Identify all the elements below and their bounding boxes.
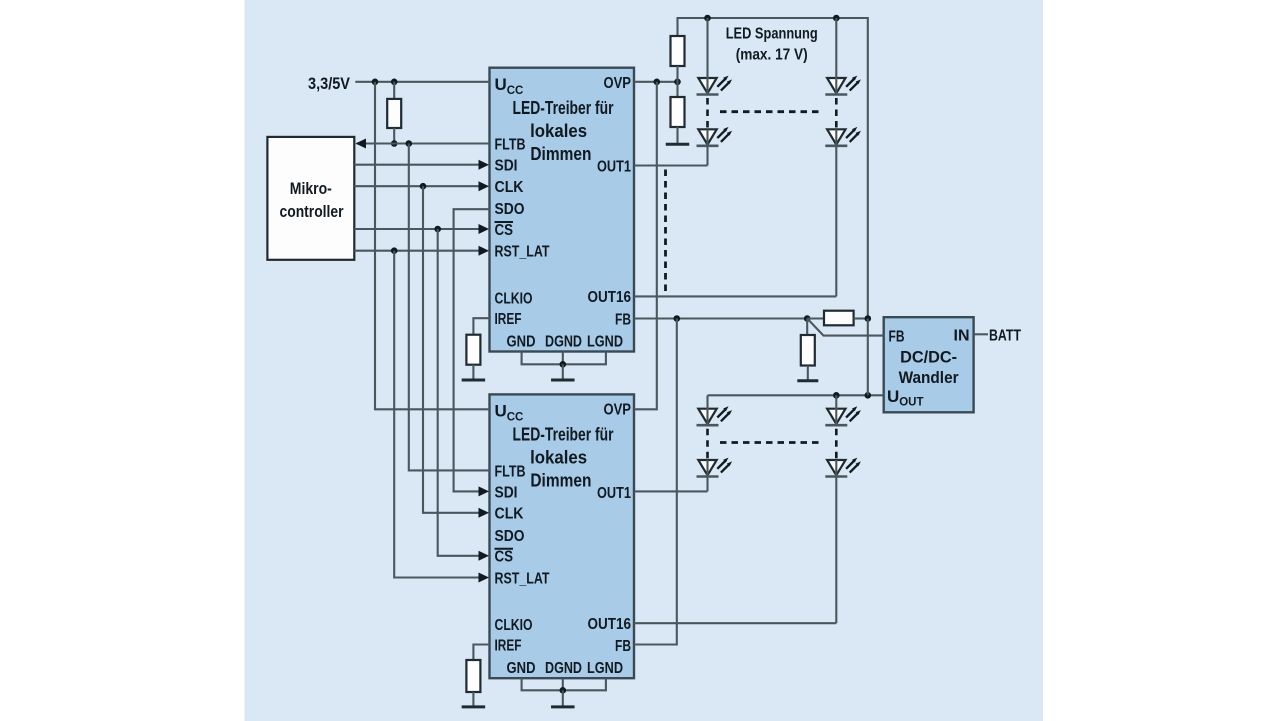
dashed series link bank2 [720, 441, 823, 444]
svg-text:SDO: SDO [495, 201, 525, 218]
wire IREF1 [473, 318, 489, 335]
wire FLTB1 [357, 142, 490, 144]
dashed series link bank1 [720, 110, 823, 113]
wire IREF2 [473, 645, 489, 661]
arrow CLK1 [479, 181, 490, 191]
arrow SDI2 [479, 486, 490, 496]
wire SDO1 to SDI2 [454, 209, 490, 491]
wire UOUT [708, 394, 884, 396]
node R1-FLTB [391, 140, 398, 147]
node LED top b [833, 15, 840, 22]
svg-text:DGND: DGND [545, 660, 582, 677]
svg-text:Dimmen: Dimmen [530, 143, 591, 164]
svg-text:3,3/5V: 3,3/5V [308, 74, 351, 93]
svg-text:CS: CS [495, 549, 514, 566]
svg-text:FB: FB [615, 638, 631, 655]
node LED top a [704, 15, 711, 22]
node OVP1-a [654, 79, 661, 86]
arrow RST_LAT2 [479, 573, 490, 583]
wire LED supply top [678, 18, 868, 319]
wire Ucc1 supply [355, 81, 489, 83]
dashed outputs U1 [664, 170, 667, 292]
node OVP1-b [674, 79, 681, 86]
arrow SDI1 [479, 160, 490, 170]
IC U3 DC/DC-Wandler [884, 317, 974, 412]
svg-text:GND: GND [507, 334, 536, 351]
wire CLK1 [354, 185, 478, 187]
svg-text:OUT: OUT [899, 397, 923, 409]
svg-text:Dimmen: Dimmen [530, 470, 591, 491]
svg-text:LED-Treiber für: LED-Treiber für [513, 424, 614, 445]
svg-text:DGND: DGND [545, 334, 582, 351]
wire R3-R4 [676, 66, 678, 97]
svg-text:GND: GND [507, 660, 536, 677]
LED string 4 to OUT16 U2 [634, 395, 861, 623]
node FLTB bus [406, 140, 413, 147]
IC U2 LED-Treiber block 2 [490, 394, 635, 678]
ground R6 [797, 366, 818, 381]
wire supply rail to UOUT [867, 319, 869, 396]
ground R7 [462, 692, 486, 707]
node FB junction [804, 315, 811, 322]
wire FB1 [634, 317, 807, 319]
resistor R1 [387, 99, 401, 128]
LED string 1 to OUT1 U1 [634, 18, 732, 166]
svg-text:lokales: lokales [530, 447, 587, 468]
wire DGND1 stub [562, 352, 564, 365]
svg-text:Wandler: Wandler [899, 368, 959, 387]
svg-text:controller: controller [280, 202, 344, 221]
wire RST_LAT1 [354, 250, 478, 252]
svg-text:LGND: LGND [587, 334, 623, 351]
svg-text:OUT16: OUT16 [588, 289, 632, 306]
svg-text:LGND: LGND [587, 660, 623, 677]
ground R2 [462, 365, 486, 380]
resistor R2 [466, 335, 480, 365]
node FB bus [674, 315, 681, 322]
svg-text:OVP: OVP [604, 75, 632, 92]
background panel [245, 0, 1044, 721]
svg-text:RST_LAT: RST_LAT [495, 244, 550, 261]
arrow FLTB into microcontroller [356, 139, 367, 149]
resistor R6 stub [806, 319, 808, 336]
wire bus FLTB to U2 [409, 144, 490, 471]
microcontroller box [267, 137, 354, 260]
resistor R3 [671, 36, 685, 66]
svg-text:OUT1: OUT1 [597, 158, 631, 175]
svg-text:OUT1: OUT1 [597, 485, 631, 502]
svg-text:CLKIO: CLKIO [495, 617, 533, 634]
svg-text:CLKIO: CLKIO [495, 291, 533, 308]
wire OVP1 [634, 81, 678, 83]
wire bus FB1-FB2 [634, 319, 677, 645]
ground U1 [551, 364, 575, 380]
svg-text:IREF: IREF [495, 638, 522, 655]
wire R5 to rail [854, 317, 868, 319]
svg-text:IREF: IREF [495, 311, 522, 328]
svg-text:CLK: CLK [495, 506, 524, 523]
svg-text:CC: CC [507, 85, 524, 97]
svg-text:U: U [887, 387, 899, 406]
LED string 2 to OUT16 U1 [634, 18, 861, 296]
node CS bus [434, 226, 441, 233]
resistor R7 [466, 660, 480, 692]
svg-text:CS: CS [495, 222, 514, 239]
wire DGND2 stub [562, 678, 564, 690]
svg-text:U: U [495, 402, 507, 421]
wire GND2 rail [522, 678, 606, 690]
ground R4 [666, 127, 690, 144]
ground U2 [551, 690, 575, 707]
svg-text:OVP: OVP [604, 402, 632, 419]
svg-text:lokales: lokales [530, 120, 587, 141]
svg-text:DC/DC-: DC/DC- [900, 348, 957, 367]
svg-text:SDI: SDI [495, 484, 518, 501]
LED string 3 to OUT1 U2 [634, 395, 732, 491]
wire GND1 rail [522, 352, 606, 365]
wire CS1 [354, 228, 478, 230]
svg-text:LED-Treiber für: LED-Treiber für [513, 97, 614, 118]
node GND1 [560, 361, 567, 368]
node FB rail [865, 315, 872, 322]
svg-text:RST_LAT: RST_LAT [495, 570, 550, 587]
IC U1 LED-Treiber block 1 [490, 68, 635, 352]
svg-text:FB: FB [615, 311, 631, 328]
svg-text:BATT: BATT [989, 327, 1021, 344]
svg-text:OUT16: OUT16 [588, 616, 632, 633]
arrow CLK2 [479, 508, 490, 518]
wire bus OVP1-OVP2 [634, 82, 657, 410]
arrow RST_LAT1 [479, 246, 490, 256]
resistor R1 stub top [393, 82, 395, 99]
svg-text:LED Spannung: LED Spannung [726, 25, 818, 42]
resistor R5 [824, 311, 854, 326]
node CLK bus [420, 183, 427, 190]
wire bus Ucc to U2 [375, 82, 490, 410]
node UOUT-a [833, 392, 840, 399]
svg-text:FLTB: FLTB [495, 463, 526, 480]
svg-text:FLTB: FLTB [495, 137, 526, 154]
node supply-b [391, 79, 398, 86]
wire bus RST_LAT to U2 [394, 251, 478, 578]
wire FB to DC/DC [807, 319, 884, 336]
wire bus CLK to U2 [423, 186, 479, 513]
svg-text:CC: CC [507, 412, 524, 424]
node supply-a [372, 79, 379, 86]
node RST bus [391, 247, 398, 254]
svg-text:U: U [495, 75, 507, 94]
svg-text:IN: IN [954, 327, 970, 344]
svg-text:Mikro-: Mikro- [290, 179, 332, 198]
svg-text:SDI: SDI [495, 158, 518, 175]
wire FB to R5 [807, 317, 824, 319]
wire SDI1 [354, 164, 478, 166]
wire IN to BATT [974, 333, 988, 335]
resistor R1 stub bottom [393, 128, 395, 144]
node UOUT-b [865, 392, 872, 399]
arrow CS1 [479, 224, 490, 234]
resistor R4 [671, 97, 685, 127]
svg-text:CLK: CLK [495, 179, 524, 196]
arrow CS2 [479, 551, 490, 561]
svg-text:(max. 17 V): (max. 17 V) [736, 46, 808, 63]
svg-text:SDO: SDO [495, 528, 525, 545]
resistor R6 [801, 335, 815, 366]
wire bus CS to U2 [438, 229, 479, 556]
svg-text:FB: FB [889, 329, 905, 346]
node GND2 [560, 687, 567, 694]
